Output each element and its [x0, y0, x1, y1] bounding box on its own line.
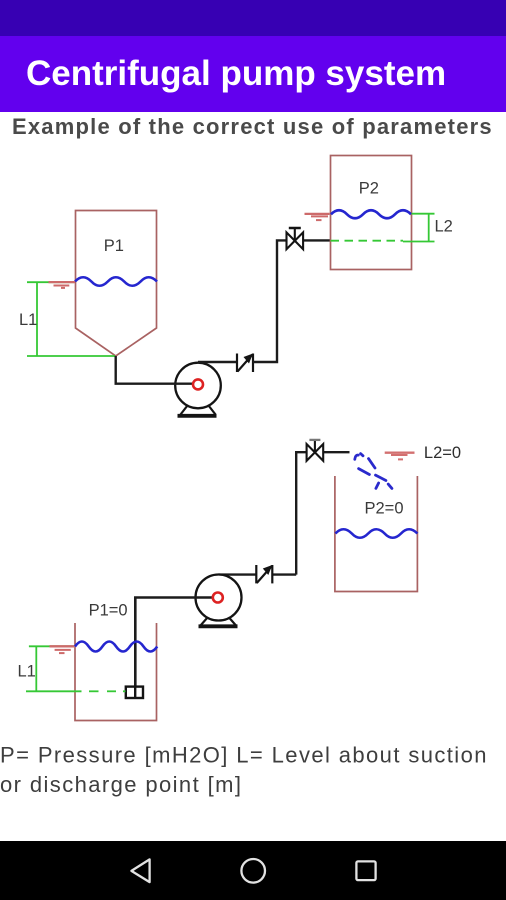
pump 1 impeller	[193, 379, 203, 389]
pipe valve V1 to tank P2	[303, 239, 331, 241]
tank P1 level marker	[49, 282, 76, 288]
tank P1b	[75, 623, 157, 721]
nav bar	[0, 841, 506, 900]
app bar	[0, 36, 506, 112]
svg-text:P1: P1	[104, 237, 124, 255]
pump 2 base	[199, 618, 238, 627]
pipe check valve to riser and to valve V1	[253, 240, 287, 362]
tank P2 level marker	[305, 214, 330, 220]
level marker L2=0	[385, 453, 415, 460]
foot valve	[126, 687, 143, 698]
pump 2 casing	[196, 575, 242, 621]
tank P1	[76, 211, 157, 357]
tank P1b water line	[75, 642, 157, 652]
svg-text:P1=0: P1=0	[89, 602, 128, 620]
tank P2b water line	[335, 529, 417, 538]
svg-text:L2: L2	[435, 218, 453, 236]
tank P1 water line	[75, 277, 157, 286]
L2 dimension lines	[403, 214, 435, 242]
valve V1	[287, 228, 304, 249]
suction pipe from foot valve to pump 2	[135, 598, 213, 687]
spray jet	[355, 454, 392, 489]
L1 dimension lines	[27, 282, 115, 356]
svg-text:P2: P2	[359, 180, 379, 198]
tank P2 water line	[331, 210, 411, 218]
svg-text:L1: L1	[19, 311, 37, 329]
tank P2b	[335, 476, 418, 592]
valve V2	[307, 440, 324, 461]
svg-text:or discharge point [m]: or discharge point [m]	[0, 772, 242, 797]
svg-text:P2=0: P2=0	[365, 499, 404, 517]
svg-text:P= Pressure [mH2O] L= Level ab: P= Pressure [mH2O] L= Level about suctio…	[0, 742, 488, 767]
svg-text:L1: L1	[18, 663, 36, 681]
status bar	[0, 0, 506, 36]
pump 2 impeller	[213, 593, 223, 603]
nav recents button	[356, 861, 375, 880]
check valve CV1	[237, 354, 253, 373]
tank P2	[331, 156, 412, 270]
check valve CV2	[256, 565, 272, 583]
suction pipe tank P1 to pump 1	[116, 356, 193, 384]
svg-text:L2=0: L2=0	[424, 444, 461, 462]
nav back button	[131, 859, 149, 882]
svg-text:Centrifugal pump system: Centrifugal pump system	[26, 54, 446, 93]
tank P1b level marker	[50, 646, 75, 653]
pipe CV2 to riser	[272, 573, 296, 575]
L1b dimension lines	[26, 646, 126, 691]
riser pipe 2 and outlet	[296, 452, 306, 574]
discharge pipe pump 1 to check valve	[198, 361, 237, 363]
pump 1 base	[178, 406, 217, 416]
svg-text:Example of the correct use of: Example of the correct use of parameters	[12, 114, 493, 139]
discharge pipe pump 2 to check valve 2	[219, 573, 257, 575]
pump 1 casing	[175, 363, 221, 409]
discharge level dashed line	[331, 240, 404, 242]
nav home button	[241, 859, 265, 883]
